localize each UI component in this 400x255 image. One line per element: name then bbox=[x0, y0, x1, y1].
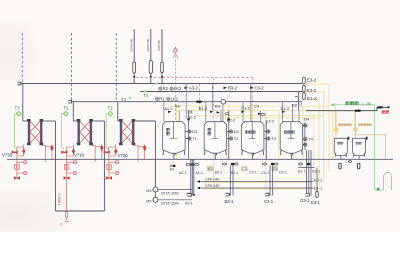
svg-text:T1: T1 bbox=[192, 136, 197, 141]
svg-text:A3-1: A3-1 bbox=[185, 201, 193, 205]
svg-text:T3: T3 bbox=[15, 106, 21, 111]
svg-text:-2: -2 bbox=[299, 103, 302, 107]
svg-text:B2-1: B2-1 bbox=[215, 171, 223, 175]
svg-text:M5: M5 bbox=[146, 199, 151, 203]
svg-text:LK1: LK1 bbox=[171, 96, 179, 101]
svg-text:D1-1: D1-1 bbox=[312, 170, 320, 174]
svg-text:C2-1: C2-1 bbox=[249, 171, 257, 175]
svg-text:M3: M3 bbox=[146, 189, 151, 193]
svg-text:D2-1: D2-1 bbox=[298, 170, 306, 174]
svg-text:T1: T1 bbox=[64, 106, 70, 111]
svg-text:20T/h 30M: 20T/h 30M bbox=[161, 202, 179, 206]
svg-text:C1-2: C1-2 bbox=[241, 105, 250, 110]
svg-text:B1-2: B1-2 bbox=[199, 106, 208, 111]
svg-text:E2-1: E2-1 bbox=[314, 177, 323, 182]
svg-text:E1-2: E1-2 bbox=[307, 96, 317, 101]
svg-text:T2: T2 bbox=[234, 136, 239, 141]
svg-text:D4: D4 bbox=[234, 129, 240, 134]
svg-text:C2-2: C2-2 bbox=[266, 118, 275, 123]
svg-text:R2: R2 bbox=[163, 86, 169, 91]
svg-text:T3: T3 bbox=[271, 136, 276, 141]
svg-text:C1-1: C1-1 bbox=[261, 171, 269, 175]
svg-text:D4: D4 bbox=[304, 117, 310, 122]
svg-text:A1-1: A1-1 bbox=[195, 171, 203, 175]
svg-text:B3-2: B3-2 bbox=[228, 86, 238, 91]
svg-text:C3-2: C3-2 bbox=[255, 86, 265, 91]
svg-text:T2: T2 bbox=[108, 106, 114, 111]
svg-text:E1-1: E1-1 bbox=[314, 186, 323, 191]
svg-text:A3-2: A3-2 bbox=[189, 86, 199, 91]
svg-text:20T/h 30M: 20T/h 30M bbox=[161, 192, 179, 196]
svg-text:0.5MB 1: 0.5MB 1 bbox=[57, 194, 61, 206]
svg-text:LK2: LK2 bbox=[174, 86, 182, 91]
svg-text:D1-2: D1-2 bbox=[281, 106, 290, 111]
svg-text:D2-1: D2-1 bbox=[279, 171, 287, 175]
svg-text:E3-2: E3-2 bbox=[307, 78, 317, 83]
svg-text:T3: T3 bbox=[121, 97, 127, 102]
svg-text:B1-1: B1-1 bbox=[231, 171, 239, 175]
svg-text:B4: B4 bbox=[215, 103, 221, 108]
svg-text:A2-1: A2-1 bbox=[179, 171, 187, 175]
svg-text:T4: T4 bbox=[144, 93, 150, 98]
svg-text:CPK 040: CPK 040 bbox=[205, 184, 219, 188]
svg-text:( .28): ( .28) bbox=[363, 102, 371, 106]
svg-text:B3-1: B3-1 bbox=[225, 199, 235, 204]
svg-text:E2-2: E2-2 bbox=[307, 88, 317, 93]
svg-text:C3-1: C3-1 bbox=[264, 199, 274, 204]
svg-text:V720: V720 bbox=[118, 153, 129, 158]
svg-text:CPK 040: CPK 040 bbox=[205, 178, 219, 182]
svg-text:A3: A3 bbox=[170, 168, 174, 172]
svg-text:V736: V736 bbox=[2, 153, 13, 158]
svg-text:A1-2: A1-2 bbox=[164, 106, 173, 111]
svg-text:D3-1: D3-1 bbox=[300, 198, 310, 203]
svg-text:E3-1: E3-1 bbox=[311, 200, 321, 205]
svg-text:A4: A4 bbox=[175, 104, 181, 109]
svg-text:V710: V710 bbox=[74, 153, 85, 158]
svg-text:C4: C4 bbox=[254, 104, 260, 109]
svg-text:D2: D2 bbox=[292, 103, 298, 108]
svg-text:R1: R1 bbox=[159, 96, 165, 101]
svg-text:D3: D3 bbox=[192, 129, 197, 134]
